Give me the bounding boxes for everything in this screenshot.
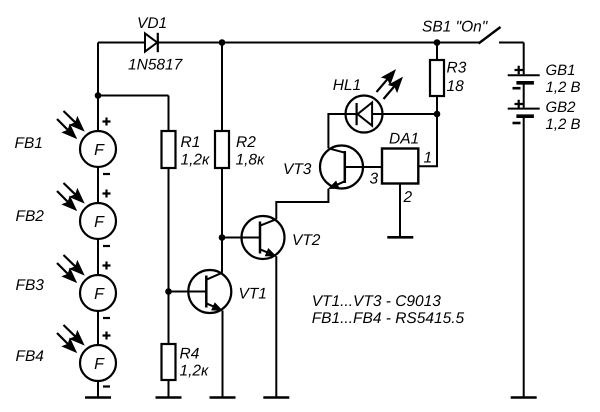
svg-text:1,2к: 1,2к xyxy=(180,363,210,380)
svg-text:VT3: VT3 xyxy=(283,161,312,178)
svg-text:R4: R4 xyxy=(180,346,200,363)
svg-text:F: F xyxy=(94,356,105,373)
svg-text:1,2к: 1,2к xyxy=(181,152,211,169)
svg-text:VT2: VT2 xyxy=(292,232,321,249)
svg-text:FB3: FB3 xyxy=(16,277,45,294)
svg-text:VD1: VD1 xyxy=(137,15,167,32)
svg-text:R3: R3 xyxy=(447,60,467,77)
svg-text:F: F xyxy=(94,142,105,159)
svg-text:FB1...FB4 - RS5415.5: FB1...FB4 - RS5415.5 xyxy=(312,310,465,327)
svg-text:1,2 В: 1,2 В xyxy=(546,116,581,133)
svg-text:GB1: GB1 xyxy=(546,62,576,79)
svg-text:3: 3 xyxy=(370,171,379,188)
svg-text:SB1 "On": SB1 "On" xyxy=(422,19,489,36)
svg-text:FB4: FB4 xyxy=(16,348,45,365)
svg-text:HL1: HL1 xyxy=(333,77,361,94)
svg-text:VT1...VT3 - C9013: VT1...VT3 - C9013 xyxy=(312,293,442,310)
svg-text:F: F xyxy=(94,214,105,231)
svg-text:2: 2 xyxy=(403,189,413,206)
svg-text:F: F xyxy=(94,286,105,303)
svg-text:R2: R2 xyxy=(236,134,256,151)
svg-text:GB2: GB2 xyxy=(546,99,577,116)
svg-text:FB2: FB2 xyxy=(16,208,45,225)
svg-text:18: 18 xyxy=(447,78,465,95)
svg-text:FB1: FB1 xyxy=(15,135,43,152)
svg-text:VT1: VT1 xyxy=(239,286,267,303)
svg-text:DA1: DA1 xyxy=(389,131,419,148)
svg-text:R1: R1 xyxy=(181,134,201,151)
svg-text:1,8к: 1,8к xyxy=(236,152,266,169)
svg-text:1,2 В: 1,2 В xyxy=(546,79,581,96)
svg-text:1: 1 xyxy=(424,150,433,167)
svg-text:1N5817: 1N5817 xyxy=(128,57,184,74)
